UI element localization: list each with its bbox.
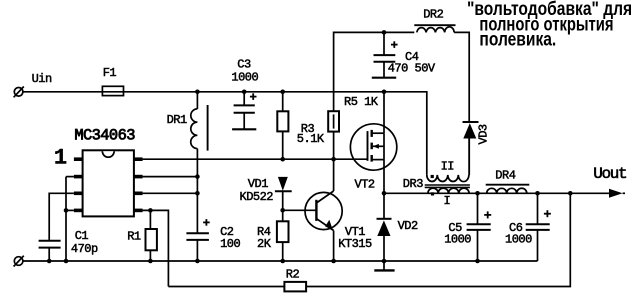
svg-text:470 50V: 470 50V <box>388 62 436 76</box>
wire feedback loop <box>168 193 570 286</box>
svg-text:VD3: VD3 <box>477 124 491 144</box>
node C6 top <box>535 191 540 196</box>
svg-text:1: 1 <box>54 146 67 171</box>
node C1 bottom <box>47 259 52 264</box>
node pin4 left <box>64 208 69 213</box>
resistor R5 <box>328 92 339 159</box>
inductor DR2 <box>414 25 455 32</box>
wire pin4 right to loop <box>143 210 169 286</box>
capacitor C2 <box>186 233 209 261</box>
resistor R3 <box>277 92 288 159</box>
node R3 VD1 join <box>280 157 285 162</box>
arrow Uout <box>609 189 625 198</box>
capacitor C5 <box>467 193 491 261</box>
plus sign C4 <box>391 41 398 48</box>
pin stubs left <box>74 159 83 210</box>
svg-text:Uin: Uin <box>32 72 52 86</box>
wire DR1 branch <box>196 92 198 109</box>
svg-text:DR4: DR4 <box>495 168 515 182</box>
wire top rail <box>23 92 427 175</box>
node R5 VT1 join <box>331 157 336 162</box>
diode VD1 <box>275 177 292 210</box>
node VT1 base join <box>280 208 285 213</box>
wire VT2 source down <box>383 160 385 219</box>
svg-text:1000: 1000 <box>444 232 471 246</box>
node R3 top <box>280 90 285 95</box>
wire DR1 bottom to C2 <box>196 149 198 234</box>
wire pin3 to C1 <box>49 193 74 241</box>
wire top loop left leg <box>334 32 415 91</box>
svg-text:R1: R1 <box>127 229 141 243</box>
svg-text:1000: 1000 <box>505 232 532 246</box>
node DR1 top <box>195 90 200 95</box>
svg-text:VD1: VD1 <box>248 177 268 191</box>
plus sign C2 <box>203 219 210 226</box>
svg-text:KT315: KT315 <box>338 237 372 251</box>
svg-text:2K: 2K <box>257 237 272 251</box>
wire bottom rail <box>23 260 537 262</box>
note text russian <box>467 0 632 50</box>
wire drain <box>383 92 385 133</box>
resistor R2 <box>284 282 306 292</box>
svg-text:1000: 1000 <box>231 70 258 84</box>
terminal Uin <box>14 87 24 98</box>
transformer DR3 winding I <box>428 188 469 193</box>
wire output rail <box>384 192 609 194</box>
ic U1 MC34063 body <box>83 150 134 216</box>
wire pin1 right to gate <box>143 158 368 160</box>
transformer DR3 winding II <box>427 139 469 182</box>
terminal bottom <box>14 256 24 267</box>
inductor DR1 <box>191 105 208 151</box>
svg-text:VD2: VD2 <box>398 219 418 233</box>
resistor R4 <box>277 210 289 261</box>
transistor VT1 <box>305 159 342 261</box>
svg-text:DR1: DR1 <box>167 113 187 127</box>
svg-text:DR3: DR3 <box>403 177 423 191</box>
svg-text:100: 100 <box>220 237 240 251</box>
diode VD2 <box>377 219 392 270</box>
node R4 bottom <box>280 259 285 264</box>
svg-text:II: II <box>441 160 454 174</box>
resistor R1 <box>146 210 157 261</box>
svg-text:VT2: VT2 <box>355 177 375 191</box>
capacitor C6 <box>526 193 550 261</box>
capacitor C3 <box>234 92 255 130</box>
pin stubs right <box>134 159 143 210</box>
svg-text:полевика.: полевика. <box>479 28 556 50</box>
svg-text:DR2: DR2 <box>423 7 443 21</box>
capacitor C1 <box>39 241 61 261</box>
wire DR2 right to VD3 <box>454 32 469 122</box>
node R1 bottom <box>148 259 153 264</box>
node C2 bottom <box>195 259 200 264</box>
svg-text:Uout: Uout <box>593 165 626 183</box>
node C5 bottom <box>475 259 480 264</box>
node output feedback <box>568 191 573 196</box>
wire pin3 right <box>143 192 198 194</box>
capacitor C4 <box>374 32 396 77</box>
svg-text:R2: R2 <box>286 268 300 282</box>
node VD2 rail <box>382 259 387 264</box>
node pin3 DR1 <box>195 191 200 196</box>
svg-text:R5 1K: R5 1K <box>344 95 379 109</box>
node C4 rail <box>382 90 387 95</box>
node VT1 emitter rail <box>331 259 336 264</box>
ground symbol <box>374 269 394 271</box>
transformer DR3 core <box>425 185 470 187</box>
wire pin2 right <box>143 176 198 178</box>
polarity dot I <box>431 192 434 195</box>
polarity dot II <box>431 175 434 178</box>
wire pin2 to pin4 left <box>66 177 74 261</box>
node C5 top <box>475 191 480 196</box>
inductor DR4 <box>486 185 530 194</box>
node left rail join <box>64 259 69 264</box>
transistor VT2 mosfet <box>350 124 396 170</box>
svg-text:MC34063: MC34063 <box>74 127 135 145</box>
node C4 top <box>382 30 387 35</box>
ground C4 <box>372 77 396 79</box>
wire VT1 base <box>283 209 317 211</box>
svg-text:KD522: KD522 <box>240 190 274 204</box>
svg-text:5.1K: 5.1K <box>297 132 325 146</box>
svg-text:C3: C3 <box>237 57 251 71</box>
node switch output <box>382 191 387 196</box>
svg-text:470p: 470p <box>71 242 98 256</box>
diode VD3 <box>463 122 479 175</box>
plus sign C3 <box>250 93 257 100</box>
fuse F1 <box>102 86 123 95</box>
ground C3 <box>232 128 256 130</box>
node R1 top <box>148 208 153 213</box>
plus sign C6 <box>544 210 551 217</box>
node pin2 DR1 <box>195 174 200 179</box>
svg-text:F1: F1 <box>103 66 117 80</box>
plus sign C5 <box>484 211 491 218</box>
svg-text:I: I <box>444 194 451 208</box>
node C3 top <box>242 90 247 95</box>
